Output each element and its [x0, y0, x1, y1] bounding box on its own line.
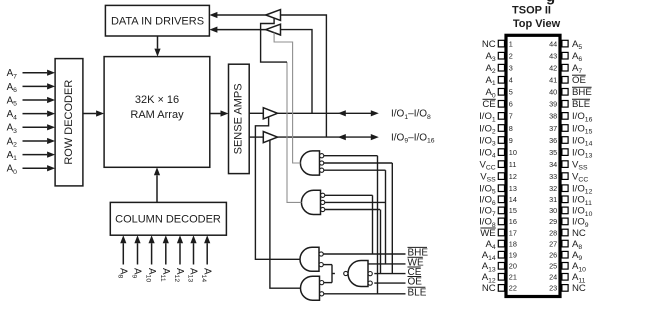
- svg-text:39: 39: [549, 100, 557, 109]
- wire G1 input 2 to CE net: [324, 162, 393, 164]
- wire A10 into COLUMN DECODER: [151, 243, 153, 264]
- wire vertical tap CE to G2: [380, 210, 382, 274]
- gate G5 (chip/output enable NAND) input bubble 2: [368, 281, 372, 285]
- svg-text:BLE: BLE: [572, 99, 590, 110]
- svg-text:4: 4: [509, 76, 513, 85]
- wire A1 into ROW DECODER: [23, 154, 48, 156]
- wire G1 input 3 to WE net: [324, 169, 386, 171]
- gate G1 (low-byte write enable NOR) input bubble 2: [320, 161, 324, 165]
- wire vertical tap BLE to G1: [377, 156, 379, 294]
- pin 19 lead: [498, 251, 504, 258]
- pin 10 lead: [498, 149, 504, 156]
- gate G1 (low-byte write enable NOR) input bubble 3: [320, 168, 324, 172]
- svg-text:22: 22: [509, 284, 517, 293]
- svg-text:13: 13: [509, 184, 517, 193]
- svg-text:40: 40: [549, 88, 557, 97]
- gate G5 (chip/output enable NAND): [348, 261, 368, 287]
- svg-text:Top View: Top View: [513, 18, 561, 30]
- svg-text:RAM Array: RAM Array: [130, 109, 184, 121]
- wire vertical tap CE to G1: [391, 163, 393, 274]
- svg-text:NC: NC: [482, 283, 496, 294]
- svg-text:23: 23: [549, 284, 557, 293]
- pin 28 lead: [562, 229, 568, 236]
- pin 2 lead: [498, 52, 504, 59]
- svg-text:9: 9: [509, 136, 513, 145]
- pin 24 lead: [562, 274, 568, 281]
- pin 1 lead: [498, 40, 504, 47]
- svg-text:20: 20: [509, 262, 517, 271]
- pin 35 lead: [562, 149, 568, 156]
- buffer U7b (output buffer, lower): [263, 132, 277, 143]
- pin 11 lead: [498, 161, 504, 168]
- svg-text:42: 42: [549, 64, 557, 73]
- pin 14 lead: [498, 196, 504, 203]
- wire I/O9-I/O16 bus: [278, 136, 372, 138]
- pin 43 lead: [562, 52, 568, 59]
- wire OE control net: [374, 282, 405, 284]
- svg-text:35: 35: [549, 148, 557, 157]
- pin 3 lead: [498, 64, 504, 71]
- svg-text:24: 24: [549, 273, 557, 282]
- pin 7 lead: [498, 113, 504, 120]
- svg-text:25: 25: [549, 262, 557, 271]
- arrowhead I/O1-I/O8 outward: [371, 110, 379, 116]
- block "COLUMN DECODER" U6: [110, 202, 226, 235]
- svg-text:27: 27: [549, 239, 557, 248]
- svg-text:31: 31: [549, 195, 557, 204]
- wire U1a output into DATA IN DRIVERS: [217, 14, 266, 16]
- pin 29 lead: [562, 218, 568, 225]
- wire CE control net: [374, 273, 405, 275]
- pin 4 lead: [498, 77, 504, 84]
- gate G1 (low-byte write enable NOR): [300, 151, 319, 175]
- svg-text:1: 1: [509, 39, 513, 48]
- pin 36 lead: [562, 137, 568, 144]
- svg-text:3: 3: [509, 64, 513, 73]
- wire A8 into COLUMN DECODER: [122, 243, 124, 264]
- svg-text:29: 29: [549, 217, 557, 226]
- svg-text:32: 32: [549, 184, 557, 193]
- buffer U1a (input data driver, upper): [266, 10, 281, 21]
- gate G3 (high-byte output enable NOR) input bubble 1: [319, 252, 323, 256]
- pin 32 lead: [562, 185, 568, 192]
- wire G1 input 1 to BLE net: [324, 155, 378, 157]
- gate G2 (high-byte write enable NOR) input bubble 2: [321, 200, 325, 204]
- wire A6 into ROW DECODER: [23, 85, 48, 87]
- wire A11 into COLUMN DECODER: [165, 243, 167, 264]
- gate G5 (chip/output enable NAND) output bubble: [344, 271, 348, 275]
- buffer U1b (input data driver, lower): [266, 24, 281, 35]
- svg-text:16: 16: [509, 217, 517, 226]
- svg-text:g: g: [546, 0, 555, 6]
- pin 17 lead: [498, 229, 504, 236]
- pin 42 lead: [562, 64, 568, 71]
- block "32K x 16 RAM Array" U4: [104, 57, 210, 168]
- pin 26 lead: [562, 251, 568, 258]
- wire A12 into COLUMN DECODER: [179, 243, 181, 264]
- svg-text:6: 6: [509, 100, 513, 109]
- pin 12 lead: [498, 173, 504, 180]
- pin 25 lead: [562, 263, 568, 270]
- wire G5 output junction vertical: [331, 265, 333, 283]
- wire G4 input 1 stub to G5 output: [324, 282, 332, 284]
- wire vertical tap BHE to G2: [372, 195, 374, 254]
- svg-text:41: 41: [549, 76, 557, 85]
- wire ROW DECODER to RAM Array: [83, 113, 96, 115]
- svg-text:BHE: BHE: [572, 87, 592, 98]
- gate G4 (low-byte output enable NOR) input bubble 1: [320, 281, 324, 285]
- arrowhead I/O9-I/O16 outward: [371, 134, 379, 140]
- pin 6 lead: [498, 101, 504, 108]
- svg-text:26: 26: [549, 251, 557, 260]
- svg-text:ROW DECODER: ROW DECODER: [63, 80, 75, 165]
- wire U1b input from I/O1-I/O8 bus: [281, 30, 313, 114]
- block "DATA IN DRIVERS" U2: [105, 5, 209, 36]
- svg-text:43: 43: [549, 52, 557, 61]
- svg-text:21: 21: [509, 273, 517, 282]
- wire COLUMN DECODER to RAM Array: [156, 175, 158, 202]
- pin 5 lead: [498, 89, 504, 96]
- pin 15 lead: [498, 207, 504, 214]
- pin 23 lead: [562, 285, 568, 292]
- svg-text:I/O1–I/O8: I/O1–I/O8: [391, 109, 431, 121]
- wire RAM Array to SENSE AMPS: [210, 113, 221, 115]
- pin 18 lead: [498, 240, 504, 247]
- wire vertical tap WE shared G1/G2: [385, 170, 387, 264]
- svg-text:NC: NC: [482, 39, 496, 50]
- gate G4 (low-byte output enable NOR): [301, 276, 320, 300]
- svg-text:37: 37: [549, 124, 557, 133]
- svg-text:5: 5: [509, 88, 513, 97]
- wire G2 output to U1a enable: [287, 62, 302, 202]
- svg-text:COLUMN DECODER: COLUMN DECODER: [115, 214, 221, 226]
- pin 40 lead: [562, 89, 568, 96]
- arrowhead U1b into DATA IN DRIVERS: [209, 27, 217, 33]
- pin 9 lead: [498, 137, 504, 144]
- wire G1 output to U1b enable: [274, 33, 300, 163]
- gate G2 (high-byte write enable NOR) input bubble 3: [321, 207, 325, 211]
- pin 39 lead: [562, 101, 568, 108]
- wire G2 output to U1a enable upper: [261, 18, 287, 62]
- svg-text:44: 44: [549, 39, 557, 48]
- pin 20 lead: [498, 263, 504, 270]
- svg-text:10: 10: [509, 148, 517, 157]
- svg-text:DATA IN DRIVERS: DATA IN DRIVERS: [111, 16, 204, 28]
- svg-text:32K × 16: 32K × 16: [135, 94, 179, 106]
- arrowhead I/O1-I/O8 toward chip: [338, 110, 346, 116]
- svg-text:38: 38: [549, 112, 557, 121]
- wire WE control net: [368, 263, 406, 265]
- gate G1 (low-byte write enable NOR) input bubble 1: [320, 154, 324, 158]
- svg-text:33: 33: [549, 172, 557, 181]
- buffer U7a (output buffer, upper): [263, 108, 277, 119]
- svg-text:NC: NC: [572, 228, 586, 239]
- wire A4 into ROW DECODER: [23, 113, 48, 115]
- pin 13 lead: [498, 185, 504, 192]
- pin 27 lead: [562, 240, 568, 247]
- pin 22 lead: [498, 285, 504, 292]
- pin 34 lead: [562, 161, 568, 168]
- svg-text:19: 19: [509, 251, 517, 260]
- wire G2 input 3 to CE net: [325, 209, 380, 211]
- svg-text:2: 2: [509, 52, 513, 61]
- block "SENSE AMPS" U5: [229, 64, 250, 173]
- wire A2 into ROW DECODER: [23, 140, 48, 142]
- svg-text:30: 30: [549, 206, 557, 215]
- wire A9 into COLUMN DECODER: [137, 243, 139, 264]
- svg-text:WE: WE: [480, 228, 495, 239]
- svg-text:15: 15: [509, 206, 517, 215]
- gate G2 (high-byte write enable NOR) input bubble 1: [321, 193, 325, 197]
- wire A14 into COLUMN DECODER: [206, 243, 208, 264]
- arrowhead U1a into DATA IN DRIVERS: [209, 12, 217, 18]
- svg-text:SENSE AMPS: SENSE AMPS: [233, 83, 245, 154]
- svg-text:BLE: BLE: [408, 287, 427, 298]
- wire SENSE AMPS to U7b: [249, 136, 263, 138]
- wire U1a input from I/O9-I/O16 bus: [281, 15, 327, 137]
- pin 30 lead: [562, 207, 568, 214]
- wire G3 input 2 stub to G5 output: [323, 264, 332, 266]
- gate G5 (chip/output enable NAND) input bubble 1: [368, 272, 372, 276]
- pin 38 lead: [562, 113, 568, 120]
- svg-text:36: 36: [549, 136, 557, 145]
- wire G2 input 2 to WE net: [325, 201, 386, 203]
- package U8 TSOP II body outline: [506, 35, 560, 296]
- wire A0 into ROW DECODER: [23, 167, 48, 169]
- wire G5 output stub: [332, 273, 335, 275]
- wire G2 input 1 to BHE net: [325, 194, 373, 196]
- svg-text:7: 7: [509, 112, 513, 121]
- wire A13 into COLUMN DECODER: [193, 243, 195, 264]
- pin 31 lead: [562, 196, 568, 203]
- svg-text:NC: NC: [572, 283, 586, 294]
- svg-text:18: 18: [509, 239, 517, 248]
- wire G3 output to U7a enable: [255, 117, 300, 259]
- gate G4 (low-byte output enable NOR) input bubble 2: [320, 292, 324, 296]
- wire A3 into ROW DECODER: [23, 126, 48, 128]
- svg-text:OE: OE: [572, 75, 586, 86]
- svg-text:17: 17: [509, 228, 517, 237]
- block "ROW DECODER" U3: [55, 59, 83, 186]
- svg-text:34: 34: [549, 160, 557, 169]
- svg-text:8: 8: [509, 124, 513, 133]
- gate G2 (high-byte write enable NOR): [301, 190, 320, 214]
- wire DATA IN DRIVERS to RAM Array: [157, 36, 159, 49]
- wire I/O1-I/O8 bus: [278, 112, 372, 114]
- wire SENSE AMPS to U7a: [249, 112, 263, 114]
- wire A5 into ROW DECODER: [23, 99, 48, 101]
- pin 37 lead: [562, 125, 568, 132]
- svg-text:14: 14: [509, 195, 517, 204]
- wire BHE control net: [323, 253, 405, 255]
- svg-text:12: 12: [509, 172, 517, 181]
- pin 44 lead: [562, 40, 568, 47]
- wire U1b output into DATA IN DRIVERS: [217, 29, 266, 31]
- svg-text:28: 28: [549, 228, 557, 237]
- pin 33 lead: [562, 173, 568, 180]
- svg-text:CE: CE: [482, 99, 495, 110]
- svg-text:11: 11: [509, 160, 517, 169]
- wire BLE control net: [324, 293, 406, 295]
- wire G4 output to U7b enable: [270, 140, 301, 288]
- gate G3 (high-byte output enable NOR): [300, 247, 319, 271]
- pin 41 lead: [562, 77, 568, 84]
- gate G3 (high-byte output enable NOR) input bubble 2: [319, 263, 323, 267]
- svg-text:TSOP II: TSOP II: [512, 5, 551, 17]
- wire A7 into ROW DECODER: [23, 72, 48, 74]
- pin 8 lead: [498, 125, 504, 132]
- pin 16 lead: [498, 218, 504, 225]
- pin 21 lead: [498, 274, 504, 281]
- svg-text:OE: OE: [408, 277, 423, 288]
- arrowhead I/O9-I/O16 toward chip: [338, 134, 346, 140]
